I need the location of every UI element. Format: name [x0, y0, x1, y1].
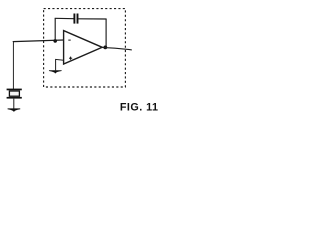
piezoelectric sensor X1: crystal body [9, 91, 19, 96]
wire: feedback vertical left segment [54, 18, 56, 41]
wire: input horizontal from sensor corner to inverting input [13, 40, 63, 42]
piezoelectric sensor X1: bottom plate [7, 97, 22, 99]
wire: sensor bottom lead [13, 99, 15, 110]
wire: output line exiting the box [102, 47, 132, 50]
dashed enclosure box [44, 9, 126, 87]
op-amp inverting input minus sign [68, 39, 70, 41]
op-amp non-inverting input plus sign [69, 57, 72, 60]
wire: vertical from input corner down to sensor top plate [12, 42, 14, 89]
ground arrow below sensor [8, 109, 21, 112]
piezoelectric sensor X1: top plate [7, 89, 22, 91]
op-amp U1 triangle [64, 31, 103, 64]
ground arrow at op-amp non-inverting input [49, 71, 62, 74]
wire: feedback top right segment from capacitor [78, 18, 106, 20]
node: output junction dot [103, 46, 107, 50]
wire: non-inverting input stub [56, 59, 64, 70]
svg-text:FIG. 11: FIG. 11 [120, 101, 159, 113]
wire: feedback vertical right segment down to output node [105, 19, 107, 47]
capacitor C1 (feedback) [74, 14, 77, 24]
node: junction dot on inverting input wire [53, 39, 57, 43]
wire: feedback top left segment to capacitor [55, 17, 74, 19]
